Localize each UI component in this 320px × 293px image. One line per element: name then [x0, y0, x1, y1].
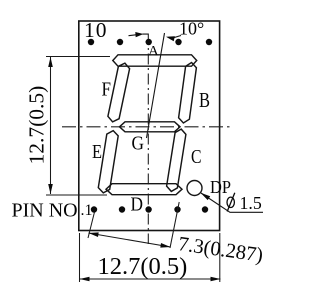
pin dots bottom row: [91, 206, 97, 212]
svg-text:10: 10: [84, 18, 108, 42]
svg-text:10°: 10°: [179, 19, 204, 39]
svg-text:C: C: [191, 146, 202, 168]
decimal point DP: [187, 181, 202, 196]
slant axis line: [147, 33, 165, 138]
horizontal centerline: [62, 126, 233, 128]
DP leader line: [201, 193, 263, 212]
bottom dimension 12.7(0.5) lines: [80, 233, 221, 282]
svg-text:E: E: [92, 141, 102, 163]
vertical centerline: [147, 34, 149, 245]
svg-text:12.7(0.5): 12.7(0.5): [98, 253, 188, 280]
segment A: [113, 55, 197, 66]
angle arrow right: [172, 36, 181, 39]
package outline: [79, 21, 220, 231]
phi symbol: [227, 197, 234, 207]
svg-text:.1: .1: [81, 202, 93, 219]
segment E: [98, 131, 118, 193]
segment C: [167, 129, 186, 191]
svg-text:DP: DP: [210, 177, 231, 197]
segment G: [120, 122, 181, 132]
segment D: [106, 184, 182, 195]
segment F: [108, 63, 130, 122]
svg-text:G: G: [132, 133, 145, 155]
svg-text:PIN NO: PIN NO: [12, 200, 78, 222]
pin dots top row: [88, 39, 94, 45]
svg-text:12.7(0.5): 12.7(0.5): [25, 86, 49, 165]
svg-text:1.5: 1.5: [240, 193, 262, 213]
segment B: [179, 63, 197, 124]
angle arrow left: [129, 34, 149, 36]
svg-text:A: A: [148, 44, 159, 60]
svg-text:D: D: [131, 194, 144, 216]
svg-text:B: B: [199, 88, 210, 112]
svg-text:F: F: [102, 79, 112, 101]
dimension 7.3(0.287) lines: [88, 202, 179, 248]
left dimension 12.7(0.5) lines: [46, 57, 110, 196]
